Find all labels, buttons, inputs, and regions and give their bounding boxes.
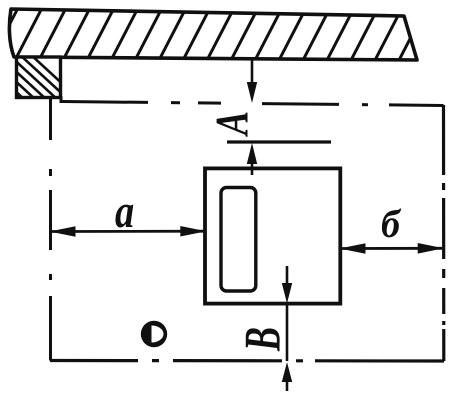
dimension V: lower arrow pointing up at center line: [286, 375, 289, 391]
dimension b: line: [341, 247, 442, 250]
dimension a: line: [51, 230, 205, 233]
dimension a: right arrowhead: [180, 226, 206, 237]
hatched square block under beam left end: [0, 54, 80, 100]
dimension A: lower arrow pointing up: [251, 158, 254, 175]
dimension b: right arrowhead: [418, 243, 444, 254]
square right edge stub to center line: [60, 96, 63, 103]
label A (rotated): [217, 112, 248, 136]
dimension b: left arrowhead: [340, 243, 366, 254]
beam (hatched bar cross-section): [0, 8, 426, 66]
dimension a: left arrowhead: [50, 226, 76, 237]
label a: [115, 205, 133, 228]
central rectangle (component outline): [205, 168, 340, 303]
center line: bottom horizontal (dash-dot): [50, 359, 444, 363]
dimension V: line between rect bottom and bottom center line: [286, 304, 289, 362]
dimension V: upper arrow pointing down at rect bottom: [286, 266, 289, 285]
label V (rotated): [246, 328, 280, 351]
half-filled circle symbol: [141, 321, 167, 347]
inner rounded slot: [221, 188, 256, 292]
center line: top horizontal (dash-dot): [62, 102, 444, 106]
dimension A: short reference line: [227, 140, 331, 143]
label b: [382, 209, 401, 238]
center line: right vertical (dash-dot): [442, 105, 445, 361]
center line: left vertical (dash-dot): [49, 99, 52, 361]
dimension A: upper extension line with down arrow: [251, 57, 254, 87]
